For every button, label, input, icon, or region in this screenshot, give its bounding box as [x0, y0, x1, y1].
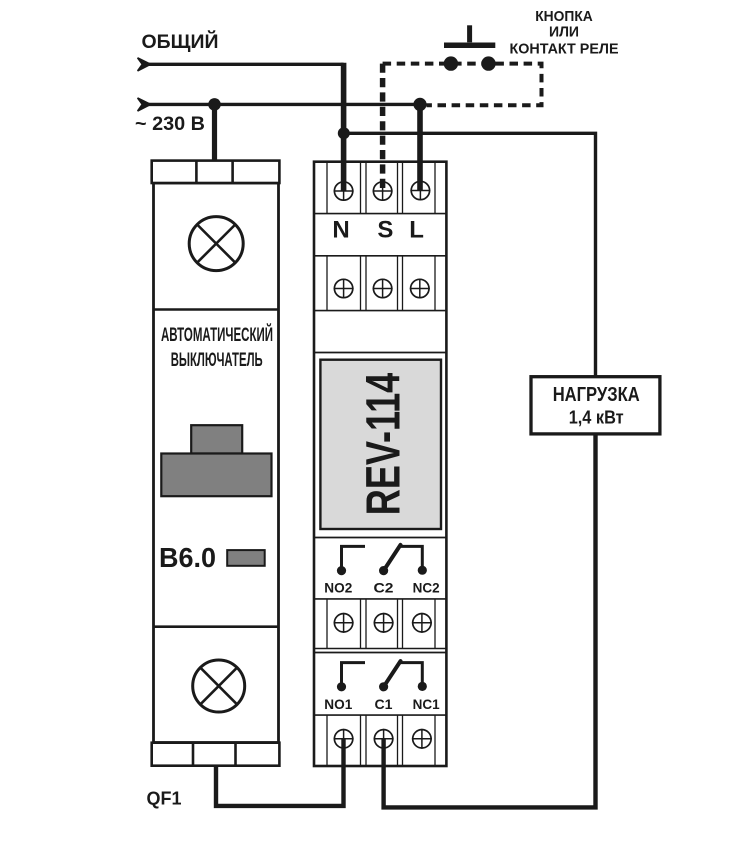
wire ОБЩИЙ down to terminal N	[341, 63, 347, 191]
band bottom line	[314, 255, 446, 257]
arrow source ОБЩИЙ	[138, 58, 151, 71]
relay contact symbol C2-NC2	[379, 545, 427, 575]
label АВТОМАТИЧЕСКИЙ ВЫКЛЮЧАТЕЛЬ	[161, 322, 273, 371]
wire QF1 bottom to NO1	[216, 739, 344, 806]
terminal row NO2 C2 NC2	[314, 599, 446, 649]
screw NC2	[412, 613, 432, 633]
relay contact symbol NO1	[337, 663, 365, 692]
screw S	[373, 181, 393, 201]
label plate REV-114	[320, 360, 441, 529]
svg-text:~ 230 В: ~ 230 В	[135, 114, 205, 135]
svg-text:ИЛИ: ИЛИ	[549, 24, 579, 41]
svg-text:АВТОМАТИЧЕСКИЙ: АВТОМАТИЧЕСКИЙ	[161, 322, 273, 346]
relay contact symbol NO2	[337, 546, 365, 575]
svg-text:НАГРУЗКА: НАГРУЗКА	[553, 383, 640, 406]
svg-text:QF1: QF1	[147, 788, 182, 809]
terminal row 2	[314, 256, 446, 311]
svg-text:ОБЩИЙ: ОБЩИЙ	[142, 31, 219, 53]
breaker divider lower	[154, 625, 279, 628]
gray tag rect	[227, 550, 265, 566]
svg-text:B6.0: B6.0	[159, 542, 216, 573]
relay contact symbol C1-NC1	[379, 661, 427, 691]
svg-text:КОНТАКТ РЕЛЕ: КОНТАКТ РЕЛЕ	[510, 41, 619, 58]
labels N S L	[332, 217, 424, 244]
section divider	[314, 652, 446, 654]
lamp symbol upper	[189, 217, 243, 271]
wire down to terminal L	[417, 104, 423, 190]
breaker QF1 body	[154, 183, 279, 743]
screw row2 a	[334, 279, 354, 299]
label КНОПКА ИЛИ КОНТАКТ РЕЛЕ	[510, 8, 619, 58]
svg-text:1,4 кВт: 1,4 кВт	[569, 407, 624, 428]
svg-text:C2: C2	[374, 580, 394, 596]
labels NO2 C2 NC2	[324, 580, 439, 596]
screw row2 b	[373, 279, 393, 299]
svg-text:NC1: NC1	[413, 696, 440, 712]
screw L	[410, 181, 430, 201]
screw NC1	[412, 729, 432, 749]
svg-text:КНОПКА: КНОПКА	[535, 8, 593, 25]
svg-text:ВЫКЛЮЧАТЕЛЬ: ВЫКЛЮЧАТЕЛЬ	[171, 349, 263, 371]
screw NO2	[334, 613, 354, 633]
svg-text:C1: C1	[375, 696, 393, 712]
svg-text:NC2: NC2	[413, 580, 440, 596]
button contact dot left	[444, 56, 458, 70]
junction dot breaker tap	[208, 98, 221, 111]
terminal row NO1 C1 NC1	[314, 715, 446, 766]
wire to load НАГРУЗКА	[344, 133, 596, 376]
wire ОБЩИЙ horizontal	[148, 63, 344, 66]
breaker QF1 bottom terminal strip	[152, 743, 280, 766]
labels NO1 C1 NC1	[324, 696, 439, 712]
svg-text:S: S	[377, 217, 393, 244]
module divider below label	[314, 537, 446, 539]
screw N	[334, 181, 354, 201]
screw row2 c	[410, 279, 430, 299]
terminal row N S L	[314, 162, 446, 214]
button contact dot right	[481, 56, 495, 70]
screw C2	[374, 613, 394, 633]
breaker toggle handle	[161, 425, 271, 496]
svg-text:NO2: NO2	[324, 580, 352, 596]
module divider above label	[314, 352, 446, 354]
junction dot L tap	[413, 98, 426, 111]
svg-text:N: N	[332, 217, 349, 244]
wire ~230В horizontal	[148, 103, 420, 106]
arrow source ~230 В	[138, 98, 151, 111]
breaker divider upper	[154, 308, 279, 311]
screw C1	[374, 729, 394, 749]
breaker QF1 top terminal strip	[152, 161, 280, 183]
load box НАГРУЗКА	[531, 377, 660, 434]
screw NO1	[334, 729, 354, 749]
wire down to QF1 top	[212, 104, 217, 162]
push button SB actuator	[444, 25, 495, 45]
wire C1 to load	[384, 434, 596, 808]
lamp symbol lower	[193, 660, 245, 712]
svg-text:REV-114: REV-114	[358, 373, 411, 516]
svg-text:NO1: NO1	[324, 696, 352, 712]
junction dot load tap	[338, 127, 350, 139]
relay module REV-114 body	[314, 162, 446, 766]
svg-text:L: L	[409, 217, 424, 244]
dashed wire S circuit	[380, 64, 386, 192]
